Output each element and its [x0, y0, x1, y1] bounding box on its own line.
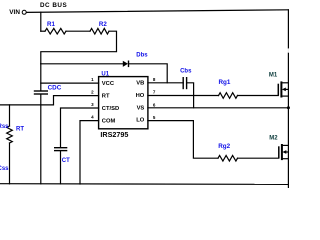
terminal VIN circle	[22, 10, 26, 14]
svg-text:LO: LO	[136, 118, 145, 124]
capacitor CDC	[34, 91, 48, 94]
wire between R1 and R2	[66, 30, 90, 32]
svg-text:COM: COM	[102, 119, 116, 125]
node VS junction dot	[287, 106, 290, 109]
svg-text:Rg1: Rg1	[219, 79, 231, 86]
svg-text:VB: VB	[136, 81, 144, 87]
wire CT lower lead	[60, 151, 62, 184]
svg-text:IRS2795: IRS2795	[100, 130, 128, 139]
svg-text:Rg2: Rg2	[218, 143, 230, 150]
wire COM pin 4	[80, 121, 99, 184]
wire R2 return elbow	[41, 31, 117, 64]
svg-text:CDC: CDC	[48, 85, 62, 92]
svg-text:M1: M1	[269, 72, 278, 78]
wire R1 lead-in	[41, 30, 45, 32]
resistor Rg1	[219, 93, 238, 99]
resistor RT	[7, 126, 13, 143]
svg-text:M2: M2	[269, 136, 278, 142]
svg-text:DC BUS: DC BUS	[40, 2, 67, 9]
resistor R2	[90, 28, 109, 34]
svg-text:VIN: VIN	[9, 9, 20, 16]
wire diode cathode to VB drop	[129, 64, 168, 83]
svg-text:Css: Css	[0, 166, 9, 172]
wire right vertical (M1 drain / half-bridge / M2 source)	[287, 10, 289, 188]
wire VCC node vertical lower (below CDC)	[40, 94, 42, 184]
svg-text:CT: CT	[62, 158, 70, 164]
wire VCC node vertical upper	[40, 64, 42, 91]
wire left branch upper	[9, 105, 11, 126]
diode Dbs	[123, 61, 129, 68]
capacitor Cbs	[183, 77, 186, 89]
svg-text:VCC: VCC	[102, 81, 115, 87]
svg-text:R2: R2	[99, 21, 107, 28]
transistor M2	[279, 144, 289, 160]
resistor Rg2	[218, 155, 238, 161]
svg-text:CT/SD: CT/SD	[102, 106, 119, 112]
text labels	[9, 2, 128, 139]
svg-text:Dbs: Dbs	[136, 52, 148, 58]
svg-text:VS: VS	[137, 106, 145, 112]
wire CT/SD pin 3	[61, 108, 99, 148]
wire LO pin 5	[148, 121, 218, 159]
wire VCC pin 1	[41, 82, 99, 84]
wire RT pin 2	[0, 96, 99, 105]
resistor R1	[45, 28, 66, 34]
glare artifact on right vertical	[276, 48, 291, 52]
svg-text:Cbs: Cbs	[180, 68, 192, 74]
svg-text:R1: R1	[47, 21, 55, 28]
wire VB pin 8	[148, 82, 183, 84]
transistor M1	[278, 81, 288, 97]
wire bottom ground rail	[0, 183, 288, 186]
wire VS pin 6	[148, 107, 289, 109]
svg-text:RT: RT	[102, 94, 110, 100]
capacitor CT	[54, 148, 67, 151]
wire top rail DC bus	[26, 10, 288, 13]
wire Rg2 to M2 gate	[238, 157, 279, 159]
svg-text:HO: HO	[136, 93, 145, 99]
wire Cbs right lead down to VS	[187, 83, 194, 108]
wire left branch lower	[9, 143, 11, 184]
svg-text:U1: U1	[101, 72, 109, 78]
wire diode anode line	[41, 63, 123, 65]
wire R1 branch drop	[40, 12, 42, 31]
svg-text:Rss: Rss	[0, 124, 9, 130]
wire Rg1 to M1 gate	[238, 95, 279, 97]
op-amp U1 IC box IRS2795	[99, 77, 148, 129]
svg-text:RT: RT	[16, 127, 24, 133]
wire HO pin 7	[148, 95, 219, 97]
